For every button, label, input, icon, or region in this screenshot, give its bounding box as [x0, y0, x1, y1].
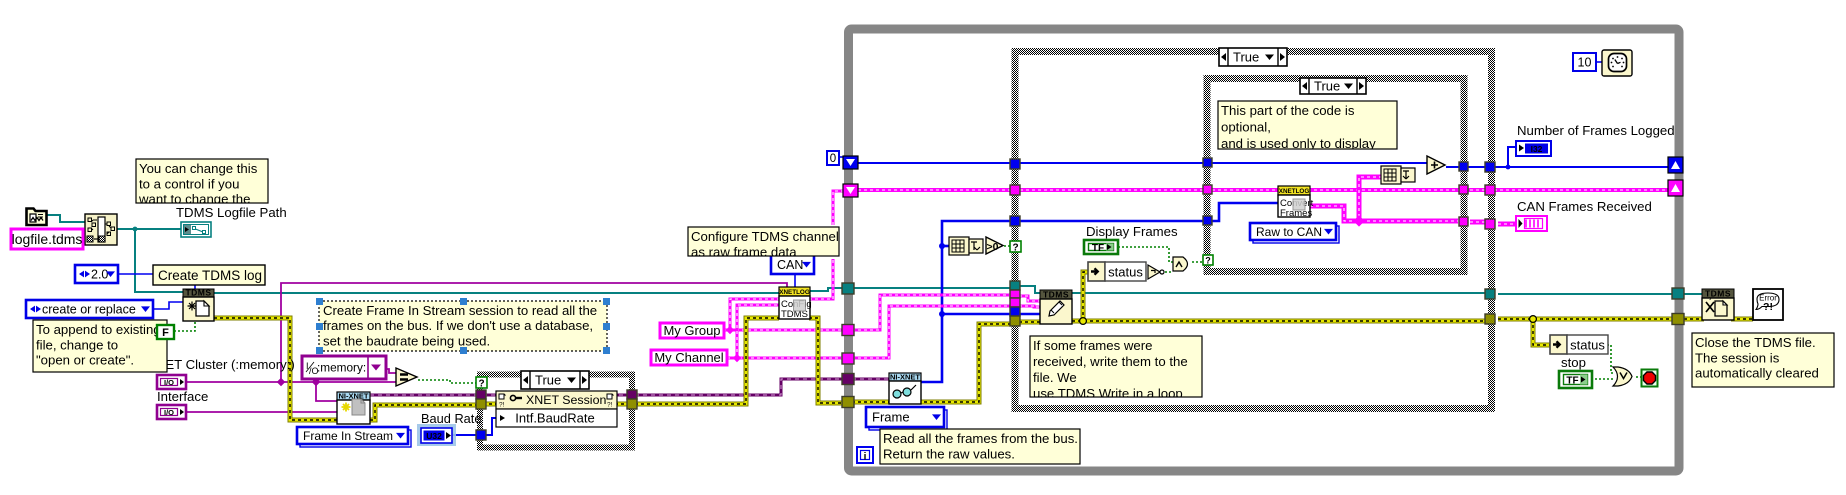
wire error branch to unbundle1: [1083, 272, 1088, 321]
svg-text:My Channel: My Channel: [654, 350, 723, 365]
wire teal path file-to-buildpath: [47, 215, 85, 222]
svg-text:?!: ?!: [607, 402, 613, 409]
tunnel loop session purple: [842, 374, 854, 385]
icon plus: [1427, 156, 1445, 174]
svg-text:optional,: optional,: [1221, 120, 1271, 135]
tunnel dispcase frames out: [1459, 185, 1468, 194]
svg-text:If some frames were: If some frames were: [1033, 338, 1152, 353]
junction blue: [939, 243, 945, 249]
wire error through case: [483, 403, 629, 405]
wire blue rawframes main: [921, 203, 1278, 382]
constant U32: [417, 424, 456, 446]
tunnel dispcase count in: [1203, 158, 1212, 167]
svg-text:This part of the code is: This part of the code is: [1221, 103, 1355, 118]
svg-text:file, change to: file, change to: [36, 337, 118, 352]
svg-text:?!: ?!: [1763, 301, 1773, 313]
wire pink into write: [1019, 296, 1040, 307]
wire pink tube to index node: [1359, 177, 1381, 223]
boolean stop: [1559, 371, 1592, 388]
wire purple cluster to equal: [186, 381, 396, 383]
svg-text:Frame: Frame: [872, 410, 910, 425]
icon array size: [949, 237, 983, 255]
case structure display: [1207, 79, 1464, 272]
tunnel bigcase error in: [1010, 316, 1020, 326]
wire pink converted frames tube: [1310, 206, 1516, 224]
wire error close-to-handler: [1731, 318, 1753, 320]
svg-text:to a control if you: to a control if you: [139, 176, 239, 191]
svg-text:XNETLOG: XNETLOG: [779, 289, 810, 296]
case structure session: [480, 375, 632, 448]
svg-text:create or replace: create or replace: [42, 303, 136, 317]
wire tdms refnum to write and across: [1019, 286, 1485, 293]
svg-text:Interface: Interface: [157, 389, 208, 404]
wire pink channel inside loop: [852, 306, 1011, 358]
string constant My Group: [660, 323, 724, 338]
junction blue: [939, 311, 945, 317]
tunnel bigcase count out: [1485, 162, 1495, 172]
combo Raw to CAN: [1250, 223, 1339, 243]
wire blue 10-to-wait: [1596, 61, 1602, 63]
comment to append: [33, 320, 167, 372]
svg-text:2.0: 2.0: [91, 268, 108, 282]
selector terminal session case: [476, 377, 487, 390]
combo Frame In Stream: [297, 427, 411, 447]
svg-text:XNET Cluster (:memory:): XNET Cluster (:memory:): [147, 357, 295, 372]
icon Convert Frames: [1278, 186, 1314, 219]
wire green or-to-stopterm: [1636, 376, 1642, 378]
svg-text:and is used only to display: and is used only to display: [1221, 136, 1376, 151]
svg-text:Display Frames: Display Frames: [1086, 224, 1178, 239]
tunnel sess purple out: [627, 390, 637, 399]
tunnel bigcase teal in: [1010, 281, 1020, 290]
svg-text:I/O: I/O: [164, 408, 174, 417]
tunnel dispcase converted out: [1459, 217, 1468, 226]
svg-text:The session is: The session is: [1695, 350, 1780, 365]
wire blue rawframes to arraysize: [942, 245, 949, 248]
svg-text:TF: TF: [1566, 375, 1578, 386]
tunnel loop teal: [842, 283, 854, 294]
svg-text:Frame In Stream: Frame In Stream: [303, 429, 393, 443]
wire blue 0-to-SR: [838, 156, 845, 158]
comment create frame in stream (selected): [316, 298, 610, 354]
icon wait ms: [1602, 50, 1632, 76]
wire pink group inside loop: [852, 295, 1011, 330]
case selector display case: [1300, 78, 1366, 94]
svg-text:CAN Frames Received: CAN Frames Received: [1517, 199, 1652, 214]
wire error case-to-loop: [1498, 318, 1673, 320]
svg-text:F: F: [162, 327, 169, 339]
junction error: [1530, 316, 1537, 323]
tunnel bigcase raw in: [1010, 307, 1020, 316]
wire error create-to-case: [370, 405, 477, 420]
comment read all frames: [880, 429, 1080, 464]
junction pink: [726, 326, 734, 334]
constant 0: [827, 151, 839, 165]
icon XNET Create Session banner: [337, 392, 370, 425]
wire green not-to-and: [1165, 271, 1173, 273]
svg-text:automatically cleared: automatically cleared: [1695, 366, 1819, 381]
tunnel bigcase group in: [1010, 290, 1020, 298]
svg-text:Configure TDMS channel: Configure TDMS channel: [691, 229, 839, 244]
svg-text:True: True: [1233, 50, 1259, 65]
control Interface: [157, 405, 186, 419]
shift register count left: [843, 156, 858, 169]
tunnel sess purple in: [476, 390, 486, 399]
icon not gate: [1148, 265, 1164, 279]
wire blue rawframes to write: [942, 313, 1040, 316]
indicator CAN Frames Received array: [1516, 216, 1547, 231]
svg-text:?: ?: [1205, 256, 1211, 266]
constant F: [157, 325, 174, 339]
tunnel loop error olive: [842, 397, 854, 408]
svg-text:You can change this: You can change this: [139, 161, 258, 176]
icon ConfigTDMS: [779, 287, 812, 320]
tunnel dispcase raw in: [1203, 216, 1212, 225]
unbundle status stop: [1550, 335, 1608, 354]
case structure write: [1015, 52, 1492, 409]
tunnel bigcase frames out: [1485, 185, 1495, 195]
wire tdms refnum config-into-loop: [810, 288, 1013, 291]
shift register frames right: [1668, 180, 1683, 196]
svg-text:TDMS: TDMS: [185, 288, 211, 298]
junction blue: [1506, 165, 1511, 170]
indicator I32 Number of Frames Logged: [1516, 141, 1551, 156]
svg-text:XNETLOG: XNETLOG: [1279, 188, 1310, 195]
tunnel bigcase frames in: [1010, 185, 1020, 195]
svg-text:status: status: [1570, 338, 1605, 353]
tunnel loop group pink: [842, 325, 854, 336]
combo create or replace: [26, 300, 153, 318]
combo CAN: [771, 255, 814, 274]
comment close tdms: [1692, 333, 1834, 387]
wire purple memory-to-equal: [386, 369, 397, 373]
svg-text:frames on the bus. If we don't: frames on the bus. If we don't use a dat…: [323, 318, 593, 333]
svg-text:>0: >0: [987, 241, 999, 253]
junction purple: [312, 378, 320, 386]
shift register frames left: [843, 184, 858, 197]
comment this part: [1218, 101, 1397, 151]
svg-text:Create Frame In Stream session: Create Frame In Stream session to read a…: [323, 303, 597, 318]
icon build path: [85, 214, 117, 245]
icon index count: [1381, 166, 1415, 184]
wire error read-to-bigcase: [852, 324, 1011, 402]
shift register count right: [1668, 157, 1683, 173]
wire pink logfile-to-buildpath: [82, 238, 86, 240]
label Create TDMS log: [153, 265, 265, 285]
svg-text:received, write them to the: received, write them to the: [1033, 354, 1188, 369]
wire blue createreplace-to-open: [153, 302, 183, 309]
svg-text:XNET Session: XNET Session: [526, 393, 606, 407]
svg-text:Intf.BaudRate: Intf.BaudRate: [515, 411, 595, 426]
svg-text:True: True: [535, 373, 561, 388]
wire tdms refnum to close: [1498, 293, 1704, 295]
tunnel loop right teal: [1672, 288, 1684, 299]
wire purple cluster up to config: [281, 283, 787, 382]
wire pink MyChannel up to config: [737, 305, 779, 358]
tunnel sess baud in: [476, 430, 486, 440]
selector terminal display case: [1203, 255, 1213, 266]
svg-text:?: ?: [478, 379, 484, 390]
string constant logfile.tdms: [11, 229, 83, 249]
svg-text:NI-XNET: NI-XNET: [890, 373, 920, 382]
comment configure tdms: [688, 227, 839, 259]
while loop: [849, 29, 1680, 471]
property node XNET Session: [496, 391, 617, 427]
wire error loop-to-close: [1684, 318, 1704, 320]
wire blue count branch to I32: [1508, 147, 1516, 167]
icon equal: [396, 368, 417, 386]
icon greater than zero: [986, 237, 1003, 254]
wire pink MyChannel out: [727, 357, 844, 359]
wire blue count plus-to-rightSR: [1446, 166, 1673, 168]
svg-text:Close the TDMS file.: Close the TDMS file.: [1695, 335, 1816, 350]
svg-text:stop: stop: [1561, 355, 1586, 370]
boolean Display Frames: [1084, 240, 1118, 254]
wire pink MyGroup out: [724, 329, 844, 331]
wire pink MyGroup up-over to SR: [730, 191, 844, 330]
tunnel bigcase channel in: [1010, 298, 1020, 307]
tunnel dispcase frames in: [1203, 185, 1212, 194]
combo :memory:: [302, 356, 386, 379]
icon simple error handler: [1753, 289, 1783, 320]
wire error config-into-loop: [809, 318, 844, 403]
tunnel bigcase converted out: [1485, 219, 1495, 229]
case selector write case: [1219, 48, 1287, 66]
svg-text:Return the raw values.: Return the raw values.: [883, 446, 1015, 461]
icon TDMS Close banner: [1702, 289, 1734, 321]
wire blue U32-to-property: [452, 418, 497, 435]
wire teal path branch to TDMS Open: [135, 229, 183, 292]
tunnel bigcase count in: [1010, 159, 1020, 169]
tunnel bigcase teal out: [1485, 289, 1495, 299]
case selector session case: [521, 371, 589, 389]
tunnel sess error in: [476, 399, 486, 409]
icon XNET Read banner: [889, 373, 921, 405]
icon TDMS Write banner: [1040, 290, 1072, 325]
svg-text:TDMS: TDMS: [1705, 289, 1731, 299]
icon or gate: [1613, 367, 1632, 386]
wire purple cluster down to create: [316, 382, 337, 401]
tunnel loop channel pink: [842, 353, 854, 364]
wire blue 2.0-to-open: [118, 274, 195, 289]
wire green stopTF-to-or: [1591, 378, 1613, 380]
junction purple: [277, 378, 285, 386]
svg-text:True: True: [1314, 79, 1340, 94]
svg-text:Raw to CAN: Raw to CAN: [1256, 225, 1322, 239]
svg-text:My Group: My Group: [663, 323, 720, 338]
control XNET Cluster: [157, 375, 186, 389]
svg-text:U32: U32: [426, 431, 442, 441]
svg-text:status: status: [1108, 265, 1143, 280]
wire xnet session wire: [370, 379, 889, 395]
svg-text:set the baudrate being used.: set the baudrate being used.: [323, 333, 490, 348]
unbundle status display: [1088, 262, 1146, 281]
iteration terminal i: [857, 447, 873, 463]
svg-text:?: ?: [1012, 243, 1018, 254]
combo 2.0: [75, 265, 118, 283]
comment if some frames: [1030, 336, 1202, 401]
wire tdms refnum open-to-config: [214, 292, 779, 294]
icon TDMS Open banner: [183, 288, 214, 322]
icon TDMS file constant: [27, 209, 47, 226]
svg-text:file. We: file. We: [1033, 370, 1077, 385]
svg-text:?!: ?!: [499, 402, 505, 409]
wire blue CAN-to-config: [794, 274, 796, 289]
constant 10: [1573, 53, 1596, 71]
string constant My Channel: [651, 350, 727, 365]
svg-text:Number of Frames Logged: Number of Frames Logged: [1517, 123, 1675, 138]
wire pink frames SR line: [858, 189, 1673, 191]
stop loop condition terminal: [1642, 370, 1658, 387]
junction pink tube: [1353, 215, 1364, 226]
icon and gate: [1173, 257, 1188, 271]
svg-text:I/O: I/O: [164, 378, 174, 387]
svg-text:To append to existing: To append to existing: [36, 322, 161, 337]
wire green status-to-or: [1607, 345, 1613, 373]
comment you can change: [136, 159, 268, 207]
indicator TDMS Logfile Path: [181, 222, 211, 237]
svg-text:TF: TF: [1092, 243, 1104, 254]
svg-text:Baud Rate: Baud Rate: [421, 411, 481, 426]
tunnel bigcase error out: [1485, 314, 1495, 324]
wire green and-to-case: [1192, 261, 1202, 263]
junction error: [1080, 318, 1087, 325]
svg-text:logfile.tdms: logfile.tdms: [12, 231, 83, 247]
wire blue count SR-to-plus: [858, 162, 1430, 164]
tunnel dispcase count out: [1459, 162, 1468, 171]
svg-text::memory:: :memory:: [317, 361, 366, 375]
junction teal: [133, 227, 138, 232]
wire error case-to-config: [635, 318, 779, 404]
wire error into write: [1019, 321, 1040, 323]
wire green TF-to-and: [1118, 247, 1173, 262]
svg-text:10: 10: [1578, 56, 1592, 70]
tunnel sess error out: [627, 399, 637, 409]
svg-text:Read all the frames from the b: Read all the frames from the bus.: [883, 431, 1078, 446]
wire error branch to unbundle2: [1533, 319, 1550, 345]
svg-text:0: 0: [830, 153, 836, 165]
junction pink: [733, 354, 741, 362]
tunnel bigcase raw in top: [1010, 216, 1020, 226]
svg-text:I32: I32: [1531, 144, 1543, 154]
svg-text:TDMS Logfile Path: TDMS Logfile Path: [176, 205, 287, 220]
wire green equal-to-case: [418, 380, 477, 383]
svg-text:TDMS: TDMS: [1043, 290, 1069, 300]
wire error open-to-create: [214, 318, 337, 420]
wire green F-to-open: [174, 322, 195, 331]
svg-text:i: i: [864, 452, 867, 463]
svg-text:Create TDMS log: Create TDMS log: [158, 268, 262, 283]
wire teal path buildpath-to-indicator: [117, 228, 181, 230]
svg-text:CAN: CAN: [777, 258, 803, 272]
tunnel loop right olive: [1672, 314, 1684, 325]
selector terminal write case: [1010, 241, 1021, 254]
wire green gt0-to-case: [1004, 245, 1011, 247]
svg-text:"open or create".: "open or create".: [36, 353, 134, 368]
wire purple interface-to-create: [186, 411, 337, 413]
wire error write-out across: [1072, 320, 1485, 322]
combo Frame: [866, 407, 947, 430]
